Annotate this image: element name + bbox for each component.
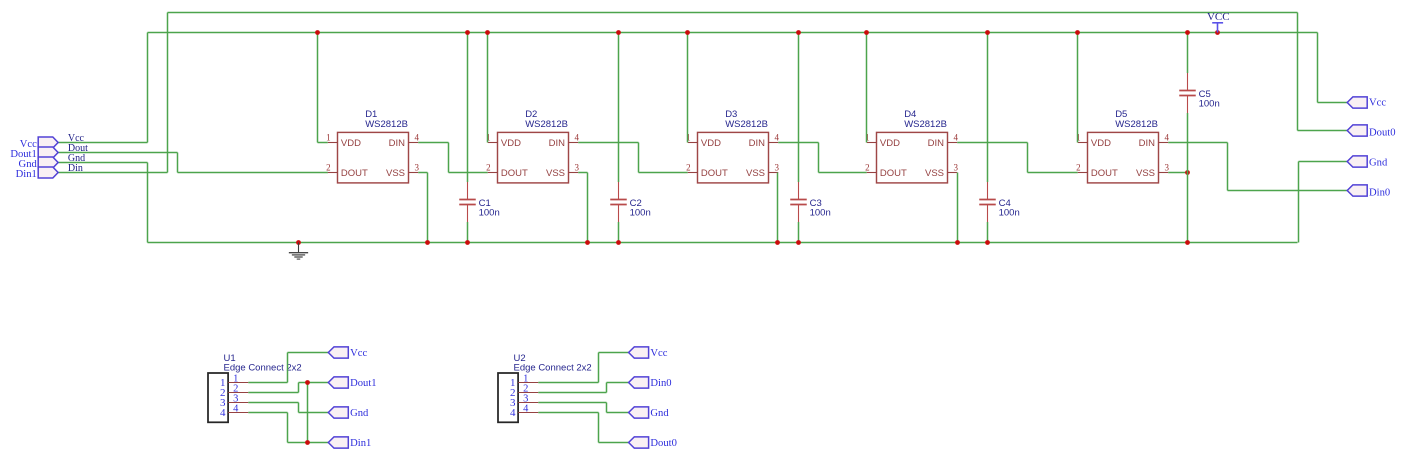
svg-text:Din0: Din0 bbox=[1369, 188, 1390, 199]
svg-text:2: 2 bbox=[486, 163, 491, 173]
svg-text:100n: 100n bbox=[479, 207, 500, 218]
svg-text:DOUT: DOUT bbox=[880, 168, 907, 179]
svg-text:VSS: VSS bbox=[546, 168, 565, 179]
svg-text:VSS: VSS bbox=[925, 168, 944, 179]
svg-text:Din1: Din1 bbox=[350, 438, 371, 449]
svg-text:4: 4 bbox=[510, 407, 516, 419]
svg-text:DIN: DIN bbox=[389, 138, 406, 149]
svg-text:4: 4 bbox=[575, 133, 580, 143]
svg-text:DIN: DIN bbox=[549, 138, 566, 149]
svg-text:4: 4 bbox=[415, 133, 420, 143]
svg-text:100n: 100n bbox=[810, 207, 831, 218]
svg-text:3: 3 bbox=[1165, 163, 1170, 173]
svg-text:Din0: Din0 bbox=[650, 378, 671, 389]
svg-text:VSS: VSS bbox=[746, 168, 765, 179]
svg-text:Dout0: Dout0 bbox=[650, 438, 676, 449]
svg-text:100n: 100n bbox=[1199, 98, 1220, 109]
svg-text:WS2812B: WS2812B bbox=[525, 119, 568, 130]
svg-text:3: 3 bbox=[954, 163, 959, 173]
svg-text:4: 4 bbox=[1165, 133, 1170, 143]
svg-text:Edge Connect 2x2: Edge Connect 2x2 bbox=[224, 362, 302, 373]
svg-text:2: 2 bbox=[686, 163, 691, 173]
svg-text:1: 1 bbox=[326, 133, 331, 143]
svg-text:DIN: DIN bbox=[1139, 138, 1156, 149]
svg-text:3: 3 bbox=[575, 163, 580, 173]
svg-text:WS2812B: WS2812B bbox=[365, 119, 408, 130]
svg-text:DOUT: DOUT bbox=[1091, 168, 1118, 179]
svg-text:VSS: VSS bbox=[386, 168, 405, 179]
svg-text:VDD: VDD bbox=[1091, 138, 1111, 149]
svg-text:DOUT: DOUT bbox=[701, 168, 728, 179]
svg-text:Dout1: Dout1 bbox=[350, 378, 376, 389]
svg-text:Vcc: Vcc bbox=[350, 348, 367, 359]
svg-text:VCC: VCC bbox=[1207, 11, 1230, 23]
svg-text:100n: 100n bbox=[999, 207, 1020, 218]
svg-text:VDD: VDD bbox=[880, 138, 900, 149]
svg-text:Gnd: Gnd bbox=[1369, 158, 1388, 169]
svg-text:Gnd: Gnd bbox=[650, 408, 669, 419]
svg-text:Din: Din bbox=[68, 163, 83, 174]
svg-text:4: 4 bbox=[220, 407, 226, 419]
svg-text:3: 3 bbox=[415, 163, 420, 173]
svg-text:WS2812B: WS2812B bbox=[904, 119, 947, 130]
svg-text:100n: 100n bbox=[630, 207, 651, 218]
svg-text:DOUT: DOUT bbox=[501, 168, 528, 179]
svg-text:WS2812B: WS2812B bbox=[725, 119, 768, 130]
svg-text:DIN: DIN bbox=[749, 138, 766, 149]
svg-text:4: 4 bbox=[775, 133, 780, 143]
svg-text:Gnd: Gnd bbox=[350, 408, 369, 419]
svg-text:Edge Connect 2x2: Edge Connect 2x2 bbox=[514, 362, 592, 373]
svg-text:VDD: VDD bbox=[701, 138, 721, 149]
svg-text:Din1: Din1 bbox=[16, 169, 37, 180]
svg-text:WS2812B: WS2812B bbox=[1115, 119, 1158, 130]
svg-text:VSS: VSS bbox=[1136, 168, 1155, 179]
svg-text:3: 3 bbox=[775, 163, 780, 173]
svg-text:Vcc: Vcc bbox=[1369, 98, 1386, 109]
svg-text:DOUT: DOUT bbox=[341, 168, 368, 179]
svg-text:VDD: VDD bbox=[341, 138, 361, 149]
svg-text:4: 4 bbox=[233, 403, 239, 414]
svg-text:2: 2 bbox=[326, 163, 331, 173]
svg-text:Dout0: Dout0 bbox=[1369, 128, 1395, 139]
svg-text:2: 2 bbox=[865, 163, 870, 173]
svg-text:VDD: VDD bbox=[501, 138, 521, 149]
svg-text:2: 2 bbox=[1076, 163, 1081, 173]
svg-text:DIN: DIN bbox=[928, 138, 945, 149]
svg-text:Vcc: Vcc bbox=[650, 348, 667, 359]
svg-text:4: 4 bbox=[954, 133, 959, 143]
svg-text:4: 4 bbox=[523, 403, 529, 414]
